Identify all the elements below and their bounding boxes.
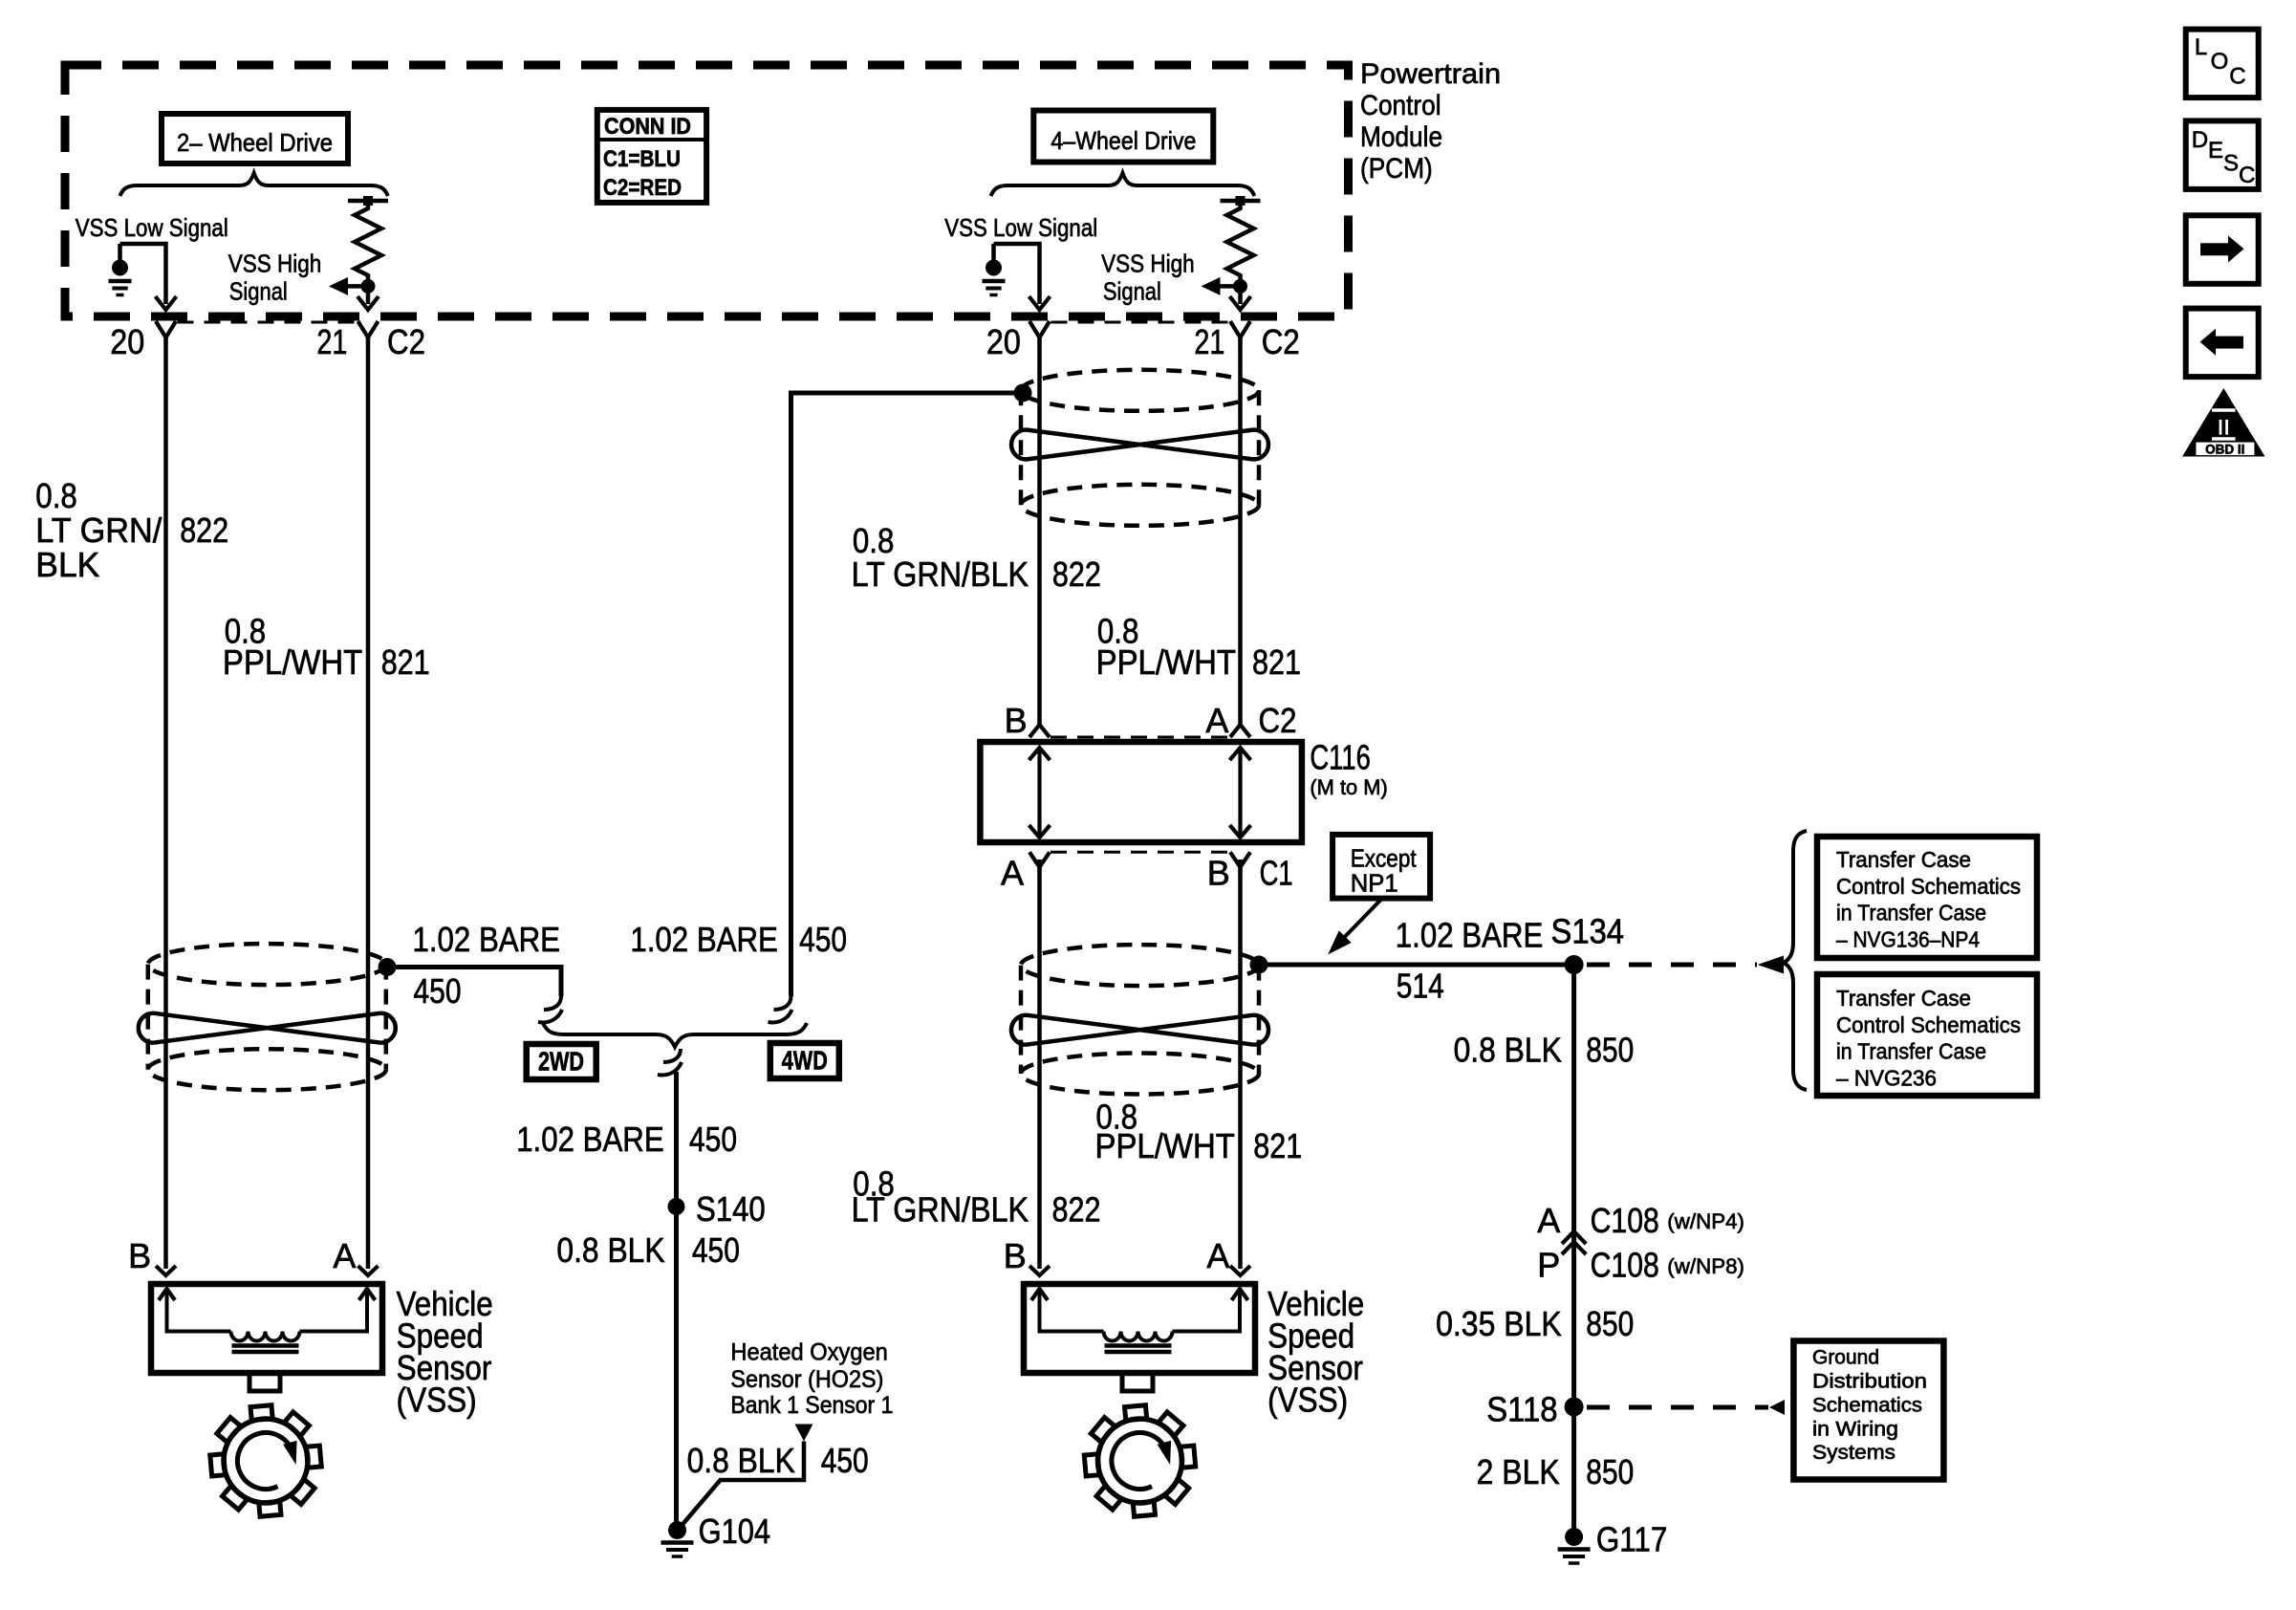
svg-text:822: 822	[1052, 1189, 1101, 1229]
4WD pin 21 connector fork	[1230, 321, 1250, 345]
svg-text:2WD: 2WD	[538, 1047, 584, 1077]
resistor R-2WD (PCM internal pull-up)	[348, 199, 388, 204]
svg-text:C108: C108	[1591, 1246, 1659, 1285]
shield drain junction	[1014, 384, 1032, 402]
svg-text:Transfer Case: Transfer Case	[1836, 847, 1971, 872]
svg-text:850: 850	[1586, 1304, 1634, 1343]
splice S134	[1565, 955, 1584, 974]
svg-text:21: 21	[1194, 322, 1224, 361]
brace for transfer case references	[1784, 831, 1807, 1090]
svg-text:Ground: Ground	[1812, 1347, 1879, 1369]
svg-text:S140: S140	[696, 1189, 766, 1229]
svg-text:B: B	[1005, 701, 1028, 740]
4WD VSS High Signal arrow	[1218, 284, 1241, 289]
svg-text:OBD II: OBD II	[2205, 442, 2244, 456]
drain wire 450 (1.02 BARE) from 2WD shield	[387, 968, 561, 997]
svg-text:21: 21	[316, 322, 347, 361]
wire 821 PPL/WHT (2WD, pin 21 to VSS A)	[366, 337, 371, 1269]
svg-text:S118: S118	[1486, 1389, 1557, 1428]
svg-text:C108: C108	[1591, 1201, 1659, 1240]
svg-text:20: 20	[110, 322, 144, 361]
Vehicle Speed Sensor (VSS) box (4WD)	[1024, 1284, 1255, 1373]
forward arrow icon	[2186, 215, 2259, 283]
wire 821 PPL/WHT (C1 A to VSS)	[1037, 859, 1042, 1269]
svg-text:G117: G117	[1596, 1519, 1667, 1558]
svg-text:4–Wheel Drive: 4–Wheel Drive	[1051, 126, 1196, 155]
2-Wheel Drive label box	[162, 114, 348, 163]
svg-text:Systems: Systems	[1812, 1442, 1895, 1464]
svg-text:B: B	[1207, 854, 1230, 893]
svg-text:0.35 BLK: 0.35 BLK	[1436, 1304, 1562, 1343]
svg-text:VSS High: VSS High	[228, 250, 321, 278]
Ground Distribution reference box	[1793, 1341, 1943, 1480]
svg-text:(w/NP4): (w/NP4)	[1667, 1209, 1744, 1233]
svg-text:in Transfer Case: in Transfer Case	[1836, 1039, 1986, 1064]
svg-text:450: 450	[799, 920, 847, 959]
svg-text:in Wiring: in Wiring	[1812, 1418, 1898, 1440]
svg-text:Heated Oxygen: Heated Oxygen	[730, 1339, 887, 1366]
svg-text:0.8: 0.8	[35, 476, 77, 515]
drain wire 514 (1.02 BARE) from 4WD lower shield to S134	[1259, 963, 1574, 968]
svg-text:S: S	[2223, 151, 2239, 177]
svg-text:A: A	[1206, 1236, 1229, 1275]
svg-text:B: B	[1004, 1236, 1027, 1275]
resistor R-4WD (PCM internal pull-up)	[1221, 199, 1261, 204]
svg-text:VSS Low Signal: VSS Low Signal	[76, 213, 228, 242]
svg-text:D: D	[2192, 127, 2208, 153]
4WD internal ground	[991, 244, 996, 260]
2WD internal ground	[118, 244, 122, 260]
svg-text:PPL/WHT: PPL/WHT	[223, 642, 362, 682]
svg-text:PPL/WHT: PPL/WHT	[1095, 1126, 1235, 1165]
svg-text:VSS High: VSS High	[1101, 250, 1195, 278]
Except NP1 note box	[1332, 835, 1430, 899]
4WD drain connector hook	[769, 996, 792, 1022]
twisted/shielded pair symbol (4WD lower)	[1021, 945, 1259, 986]
2WD pin 21 connector fork	[358, 321, 379, 345]
Transfer Case reference box 1	[1817, 837, 2037, 958]
LOC icon	[2186, 30, 2259, 98]
svg-text:821: 821	[1253, 1126, 1302, 1165]
C116 connector pins A/B (C1 side)	[1029, 852, 1050, 875]
Transfer Case reference box 2	[1817, 974, 2037, 1096]
2WD VSS pin forks	[156, 1266, 176, 1275]
svg-text:1.02 BARE: 1.02 BARE	[1396, 916, 1544, 955]
Powertrain Control Module (PCM) dashed boundary box	[65, 65, 1349, 316]
wire 821 PPL/WHT (4WD, pin 21 to C116 A)	[1238, 337, 1243, 725]
brace under 2-Wheel Drive	[120, 173, 388, 196]
svg-text:S134: S134	[1551, 912, 1625, 951]
svg-text:G104: G104	[699, 1512, 771, 1551]
svg-text:Distribution: Distribution	[1812, 1371, 1927, 1393]
svg-text:BLK: BLK	[35, 545, 99, 584]
svg-text:LT GRN/BLK: LT GRN/BLK	[852, 555, 1029, 594]
svg-text:1.02 BARE: 1.02 BARE	[630, 920, 778, 959]
4WD VSS Low Signal wire	[994, 244, 1040, 304]
svg-text:VSS Low Signal: VSS Low Signal	[944, 213, 1097, 242]
connector C116 box (M to M)	[980, 742, 1302, 842]
4WD VSS pin forks	[1029, 1266, 1050, 1275]
svg-text:– NVG236: – NVG236	[1836, 1065, 1937, 1090]
svg-text:450: 450	[692, 1230, 740, 1270]
svg-text:20: 20	[986, 322, 1021, 361]
C116 connector pins B/A (C2 side)	[1029, 725, 1050, 737]
2WD PCM connector C2 dashed line	[178, 321, 357, 324]
svg-text:C: C	[2239, 163, 2255, 188]
2WD resistor lower junction	[361, 279, 376, 294]
svg-text:(PCM): (PCM)	[1360, 153, 1433, 185]
4WD drain branch label box	[770, 1043, 839, 1078]
4WD pin 20 connector fork	[1029, 321, 1050, 345]
svg-text:(w/NP8): (w/NP8)	[1667, 1254, 1744, 1278]
svg-text:CONN ID: CONN ID	[604, 114, 691, 140]
svg-text:850: 850	[1586, 1030, 1634, 1069]
svg-text:821: 821	[1252, 642, 1301, 682]
svg-text:C1: C1	[1260, 854, 1293, 893]
svg-text:Control Schematics: Control Schematics	[1836, 1012, 2021, 1037]
reluctor gear wheel (4WD)	[1098, 1419, 1182, 1503]
Except NP1 pointer arrow	[1335, 899, 1382, 946]
svg-text:II: II	[2218, 415, 2230, 441]
svg-text:822: 822	[180, 511, 228, 550]
svg-text:1.02 BARE: 1.02 BARE	[413, 920, 561, 959]
drain wire 450 (1.02 BARE) from 4WD upper shield	[791, 393, 1025, 996]
svg-text:850: 850	[1586, 1452, 1634, 1491]
svg-text:C2=RED: C2=RED	[603, 175, 682, 201]
svg-text:C2: C2	[1259, 701, 1297, 740]
2WD VSS Low Signal wire	[120, 244, 166, 304]
OBD II icon	[2182, 388, 2265, 457]
svg-text:A: A	[1001, 854, 1024, 893]
4-Wheel Drive label box	[1033, 111, 1213, 163]
svg-text:450: 450	[821, 1441, 869, 1480]
svg-text:Control: Control	[1360, 90, 1441, 121]
HO2S branch wire 0.8 BLK 450	[680, 1442, 804, 1529]
ground G104	[668, 1521, 686, 1539]
svg-text:NP1: NP1	[1351, 869, 1398, 898]
shield drain junction	[1250, 956, 1268, 974]
wire 822 LT GRN/BLK (4WD, pin 20 to C116 B)	[1037, 337, 1042, 725]
twisted/shielded pair symbol (2WD)	[148, 944, 386, 985]
dashed reference link from S134	[1587, 963, 1757, 968]
svg-text:C116: C116	[1310, 738, 1370, 777]
svg-text:1.02 BARE: 1.02 BARE	[516, 1120, 664, 1159]
svg-text:450: 450	[414, 971, 462, 1011]
svg-text:4WD: 4WD	[782, 1046, 828, 1076]
reluctor gear wheel (2WD)	[224, 1419, 308, 1503]
svg-text:Control Schematics: Control Schematics	[1836, 874, 2021, 899]
svg-text:P: P	[1537, 1246, 1560, 1285]
DESC icon	[2186, 120, 2259, 188]
svg-text:2– Wheel Drive: 2– Wheel Drive	[177, 128, 333, 157]
svg-text:C2: C2	[387, 322, 425, 361]
svg-text:B: B	[128, 1236, 151, 1275]
svg-text:A: A	[333, 1236, 356, 1275]
4WD high-signal wire to pin	[1238, 286, 1243, 304]
2WD VSS High Signal arrow	[345, 284, 368, 289]
gathering brace joining 2WD and 4WD drains	[543, 1023, 807, 1047]
splice wire 450 down to S140	[674, 1072, 679, 1531]
Vehicle Speed Sensor (VSS) box (2WD)	[151, 1284, 382, 1373]
svg-text:– NVG136–NP4: – NVG136–NP4	[1836, 926, 1980, 951]
HO2S branch arrow	[795, 1425, 813, 1442]
svg-text:Sensor (HO2S): Sensor (HO2S)	[730, 1366, 883, 1393]
svg-text:A: A	[1205, 701, 1228, 740]
2WD pin 20 connector fork	[156, 321, 176, 345]
svg-text:LT GRN/BLK: LT GRN/BLK	[852, 1189, 1029, 1229]
svg-text:0.8 BLK: 0.8 BLK	[556, 1230, 664, 1270]
svg-text:PPL/WHT: PPL/WHT	[1096, 642, 1236, 682]
wire 822 LT GRN/BLK (2WD, pin 20 to VSS B)	[163, 337, 168, 1269]
svg-text:C: C	[2229, 64, 2245, 90]
svg-text:Signal: Signal	[1103, 277, 1161, 306]
svg-text:514: 514	[1397, 967, 1444, 1006]
4WD PCM connector C2 dashed line	[1051, 321, 1229, 324]
svg-text:O: O	[2211, 49, 2229, 75]
svg-text:A: A	[1537, 1201, 1560, 1240]
2WD drain connector hook	[538, 996, 562, 1022]
svg-text:(VSS): (VSS)	[1267, 1381, 1348, 1420]
ground G117	[1565, 1528, 1583, 1546]
wire 850 BLK (S134 to G117)	[1571, 965, 1576, 1531]
dashed reference link from S118	[1587, 1405, 1768, 1410]
svg-text:Module: Module	[1360, 121, 1442, 153]
svg-text:in Transfer Case: in Transfer Case	[1836, 901, 1986, 925]
CONN ID legend box	[597, 110, 706, 203]
svg-text:LT GRN/: LT GRN/	[35, 511, 162, 550]
svg-text:E: E	[2208, 138, 2223, 163]
4WD low-signal wire arrowhead	[1029, 296, 1051, 310]
svg-text:821: 821	[381, 642, 430, 682]
brace under 4-Wheel Drive	[991, 173, 1255, 196]
svg-text:L: L	[2195, 34, 2207, 60]
2WD low-signal wire arrowhead	[156, 296, 177, 310]
svg-text:450: 450	[689, 1120, 737, 1159]
2WD high-signal wire to pin	[366, 286, 371, 304]
svg-text:822: 822	[1052, 555, 1101, 594]
svg-text:2 BLK: 2 BLK	[1477, 1452, 1560, 1491]
wire 822 LT GRN/BLK (C1 B to VSS)	[1238, 859, 1243, 1269]
back arrow icon	[2186, 309, 2259, 378]
svg-text:0.8 BLK: 0.8 BLK	[687, 1441, 795, 1480]
svg-text:(M to M): (M to M)	[1310, 775, 1387, 799]
splice S140	[668, 1198, 685, 1215]
svg-text:Powertrain: Powertrain	[1360, 58, 1501, 90]
svg-text:C2: C2	[1262, 322, 1300, 361]
2WD drain branch label box	[527, 1044, 596, 1079]
svg-text:Transfer Case: Transfer Case	[1836, 986, 1971, 1011]
svg-text:(VSS): (VSS)	[397, 1381, 477, 1420]
4WD resistor lower junction	[1233, 279, 1247, 294]
shield drain junction	[379, 958, 397, 976]
svg-text:C1=BLU: C1=BLU	[603, 146, 681, 172]
svg-text:Signal: Signal	[229, 277, 288, 306]
svg-text:Schematics: Schematics	[1812, 1394, 1922, 1416]
hook under brace	[658, 1049, 682, 1075]
svg-text:Bank 1 Sensor 1: Bank 1 Sensor 1	[730, 1392, 893, 1419]
svg-text:0.8 BLK: 0.8 BLK	[1454, 1030, 1562, 1069]
twisted/shielded pair symbol (4WD upper)	[1021, 370, 1259, 411]
